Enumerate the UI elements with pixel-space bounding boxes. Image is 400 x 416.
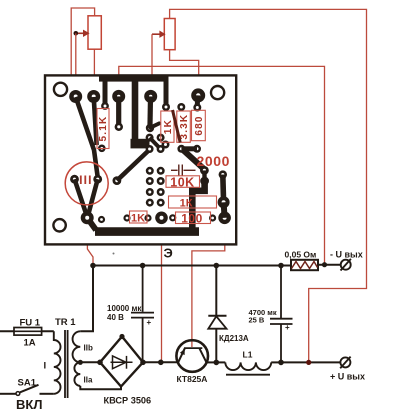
svg-text:1K: 1K: [163, 119, 174, 134]
mounting hole top-left: [54, 83, 67, 96]
node red loop junction: [306, 360, 311, 365]
wire trace E1 to E2: [220, 175, 226, 203]
svg-text:КД213А: КД213А: [219, 334, 249, 343]
wire center tap to bridge: [80, 361, 100, 363]
wire R2 wiper to pad P4: [151, 34, 153, 96]
pad B2: [146, 124, 154, 132]
pad T1 (transistor left): [70, 175, 79, 184]
svg-text:3.3K: 3.3K: [179, 114, 190, 140]
diode КД213А: [208, 266, 226, 363]
svg-text:2000: 2000: [197, 153, 231, 169]
wire diagonal T3 to DIP: [117, 151, 149, 181]
node junction dot R1 wiper: [74, 31, 79, 36]
pad R680 bottom: [193, 145, 201, 153]
svg-text:L1: L1: [243, 350, 253, 360]
pad P4: [144, 90, 157, 103]
inductor L1: [216, 362, 281, 374]
pad R33K top: [177, 103, 185, 111]
transistor pin marks III: [81, 176, 90, 185]
svg-text:I: I: [44, 361, 47, 372]
PCB board outline: [45, 75, 236, 244]
pad DIP row4: [146, 199, 154, 207]
resistor box 3.3K: [177, 111, 191, 142]
svg-text:Э: Э: [164, 246, 173, 261]
svg-text:КВСР 3506: КВСР 3506: [104, 396, 152, 406]
node bridge top: [119, 334, 124, 339]
transistor КТ825А: [176, 340, 208, 372]
pad D2: [200, 177, 209, 186]
svg-text:+: +: [285, 323, 290, 332]
svg-text:1К: 1К: [180, 197, 193, 209]
wire shunt to -U terminal: [318, 264, 341, 266]
pad E3 thick: [218, 212, 231, 225]
node stray dot: [113, 253, 115, 255]
transformer secondary winding IIa: [74, 362, 80, 386]
wire bottom copper bar: [95, 227, 199, 236]
capacitor C2 4700uF: [270, 266, 293, 363]
pad E2 thick: [218, 196, 230, 208]
node collector-diode: [214, 360, 220, 366]
mounting hole top-right: [211, 86, 224, 99]
pad P3: [112, 90, 125, 103]
resistor box 680: [192, 110, 206, 140]
wire R1 wiper to pad P1: [75, 33, 77, 91]
transformer TR1 primary winding: [54, 331, 61, 394]
wire stub P3 down: [116, 96, 121, 124]
svg-text:100: 100: [181, 212, 203, 226]
svg-text:10K: 10K: [170, 175, 194, 189]
resistor box 1K lower: [169, 196, 217, 208]
terminal +U вых: [340, 357, 350, 369]
pad T2 (transistor right): [93, 175, 102, 184]
wire trace C1 to C4 diagonal: [150, 138, 161, 149]
node emitter junction: [158, 360, 164, 366]
svg-text:680: 680: [194, 115, 205, 135]
wire emitter net PCB to transistor: [161, 223, 163, 362]
capacitor symbol II: [171, 165, 196, 176]
svg-text:IIa: IIa: [84, 376, 93, 385]
pad V-converge: [98, 145, 106, 153]
pad big bottom-middle: [155, 212, 168, 225]
svg-text:TR 1: TR 1: [55, 317, 76, 328]
svg-text:0,05 Ом: 0,05 Ом: [285, 249, 317, 259]
node rail-transformer: [90, 263, 96, 269]
svg-text:+ U вых: + U вых: [330, 372, 365, 382]
switch SA1: [0, 385, 54, 396]
pad C1: [146, 134, 154, 142]
svg-text:+: +: [147, 318, 152, 327]
pad R1K top: [162, 103, 170, 111]
svg-text:IIb: IIb: [84, 344, 93, 353]
potentiometer R1 (left trimmer): [88, 16, 101, 49]
node -U sense junction: [322, 262, 327, 267]
svg-text:25 В: 25 В: [249, 316, 265, 325]
wire negative rail: [93, 265, 291, 267]
wire +U line to terminal: [281, 361, 341, 363]
pad big emitter: [81, 211, 94, 224]
wire bridge to emitter: [143, 361, 178, 363]
wiper arrow R1: [76, 30, 90, 37]
pad C3: [146, 145, 154, 153]
svg-text:SA1: SA1: [18, 378, 37, 389]
pad DIP row1: [146, 167, 154, 175]
resistor box 5.1K: [97, 109, 109, 149]
wire R2 top outer loop to +U out line: [170, 9, 367, 362]
wire collector to diode node: [207, 361, 216, 363]
resistor box 10K: [166, 176, 200, 188]
svg-text:1K: 1K: [131, 213, 145, 225]
wire trace D1-D2: [202, 170, 207, 181]
pad R1K bottom: [162, 141, 170, 149]
wire big pad to bottom bar: [87, 218, 96, 230]
wire PCB big pad to negative rail: [87, 222, 93, 265]
pad right of big bottom-middle: [169, 214, 176, 221]
pad near bottom bar: [98, 216, 105, 223]
wire trace P5 down: [195, 95, 201, 105]
svg-text:КТ825А: КТ825А: [177, 374, 208, 384]
svg-text:10000 мк: 10000 мк: [107, 304, 142, 313]
node bridge left: [97, 360, 103, 366]
svg-text:- U вых: - U вых: [330, 249, 363, 259]
svg-text:5.1K: 5.1K: [98, 116, 109, 142]
node rail-C1: [140, 263, 146, 269]
mounting hole bottom-left: [53, 219, 65, 231]
pad C4: [157, 145, 165, 153]
node center tap: [78, 360, 83, 365]
wire thick diagonal to pad D1: [183, 150, 205, 170]
pad B1: [115, 123, 123, 131]
wire stub B2 diagonal: [151, 124, 160, 128]
resistor box 100: [176, 212, 211, 224]
shunt resistor 0.05 Ом: [291, 260, 318, 270]
pad R33K bottom: [177, 145, 185, 153]
transformer secondary winding IIb: [73, 331, 81, 362]
wire secondary top to rail: [80, 266, 93, 332]
wire R1 top loop to PCB edge: [71, 8, 94, 81]
pad P1: [69, 90, 82, 103]
jumper dark red diagonal: [173, 110, 181, 143]
transformer core: [64, 330, 66, 398]
pad small left of E3: [209, 214, 216, 221]
pad E1 right column: [219, 170, 227, 178]
pad R1Kb right: [144, 214, 151, 221]
wire lambda traces to big pad: [75, 179, 87, 214]
resistor box 1K bottom-left: [130, 211, 148, 223]
wiper arrow R2: [152, 31, 166, 38]
pad P5: [191, 88, 205, 102]
wire sense bus from pad P3 to -U node: [119, 66, 325, 263]
svg-text:FU 1: FU 1: [20, 318, 41, 329]
pad P2: [87, 90, 100, 103]
node rail-C2: [278, 263, 284, 269]
wire trace bar right elbow to pad 1K top: [164, 78, 169, 104]
wire R1 bottom to pad P2: [93, 49, 95, 91]
svg-text:ВКЛ: ВКЛ: [16, 397, 42, 412]
pad A1: [101, 102, 109, 110]
wire trace bar to pad A1: [103, 78, 108, 103]
pad R1Kb left: [123, 214, 130, 221]
pad C2: [157, 134, 165, 142]
wire top copper bar: [99, 75, 169, 82]
wire R2 bottom to pad P5: [170, 50, 199, 90]
wire L trace D2 to bottom bar: [192, 181, 204, 228]
fuse FU1: [14, 328, 42, 336]
pad R680 top: [193, 104, 201, 112]
pad T3 (right of circle): [113, 176, 122, 185]
node rail-VD: [214, 263, 220, 269]
svg-text:40 В: 40 В: [107, 313, 124, 322]
capacitor C1 10000uF: [131, 266, 154, 363]
wire V traces from P1 P2: [76, 97, 98, 177]
pad DIP row2: [146, 177, 154, 185]
wire trace E2-E3: [224, 202, 225, 218]
wire long trace bar down with elbow: [132, 78, 139, 139]
wire secondary bottom to bridge: [80, 386, 121, 389]
pad D1: [200, 166, 209, 175]
node bridge right: [140, 360, 146, 366]
wire base net PCB to transistor: [192, 224, 225, 348]
svg-text:1A: 1A: [24, 338, 36, 349]
bridge internal diode: [111, 356, 133, 369]
potentiometer R2 (right trimmer): [164, 19, 175, 50]
resistor box 1K: [161, 111, 174, 142]
transistor footprint circle: [65, 162, 108, 205]
node C2 bottom: [278, 360, 284, 366]
bridge rectifier KBPC3506: [100, 337, 143, 387]
wire stub P4 down: [147, 96, 153, 125]
wire mains lead to fuse: [0, 330, 54, 332]
terminal -U вых: [341, 259, 351, 271]
wire trace R33K-R680 bottoms: [181, 146, 197, 151]
pad DIP row3: [146, 188, 154, 196]
